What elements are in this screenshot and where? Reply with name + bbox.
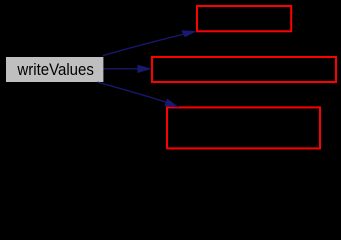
svg-text:writeValues: writeValues <box>17 60 94 79</box>
